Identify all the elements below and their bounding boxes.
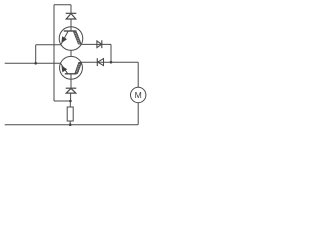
junction dot bbox=[110, 61, 113, 64]
wire motor top lead bbox=[137, 62, 139, 87]
junction dot bbox=[34, 62, 37, 65]
wire T1 base branch bbox=[36, 44, 61, 46]
diode D2 (cathode up) bbox=[66, 88, 77, 93]
transistor T1 (upper) bbox=[59, 27, 83, 51]
transistor T2 (lower) bbox=[60, 56, 83, 79]
diode D3 (points right) bbox=[97, 40, 102, 48]
wire resistor bottom lead bbox=[69, 121, 71, 125]
wire D2 to node bbox=[70, 93, 72, 101]
wire T1 emitter to T2 bbox=[70, 51, 72, 57]
wire T2 collector to D4 bbox=[81, 61, 111, 63]
wire to motor branch bbox=[111, 61, 138, 63]
wire D1 anode drop bbox=[70, 5, 72, 14]
wire left branch vertical bbox=[35, 45, 37, 64]
wire D1 to T1 top bbox=[70, 19, 72, 27]
wire T1 collector to D3 bbox=[82, 43, 112, 45]
wire top bridge bbox=[54, 4, 71, 6]
diode D1 (freewheel, cathode up) bbox=[66, 13, 77, 19]
diode D4 (points left) bbox=[97, 58, 103, 66]
wire bottom rail bbox=[5, 124, 139, 126]
motor M1 bbox=[131, 87, 146, 102]
wire resistor top lead bbox=[69, 101, 71, 107]
wire node to resistor bbox=[54, 100, 70, 102]
resistor R1 bbox=[67, 107, 73, 121]
wire T2 to D2 bbox=[70, 79, 72, 88]
junction dot bbox=[69, 123, 72, 126]
svg-text:M: M bbox=[135, 90, 142, 100]
wire left input rail bbox=[5, 62, 61, 64]
junction dot bbox=[69, 100, 72, 103]
wire left tall drop (node to resistor top) bbox=[53, 5, 55, 101]
wire right vertical link bbox=[110, 44, 112, 62]
wire motor bottom lead bbox=[137, 103, 139, 125]
